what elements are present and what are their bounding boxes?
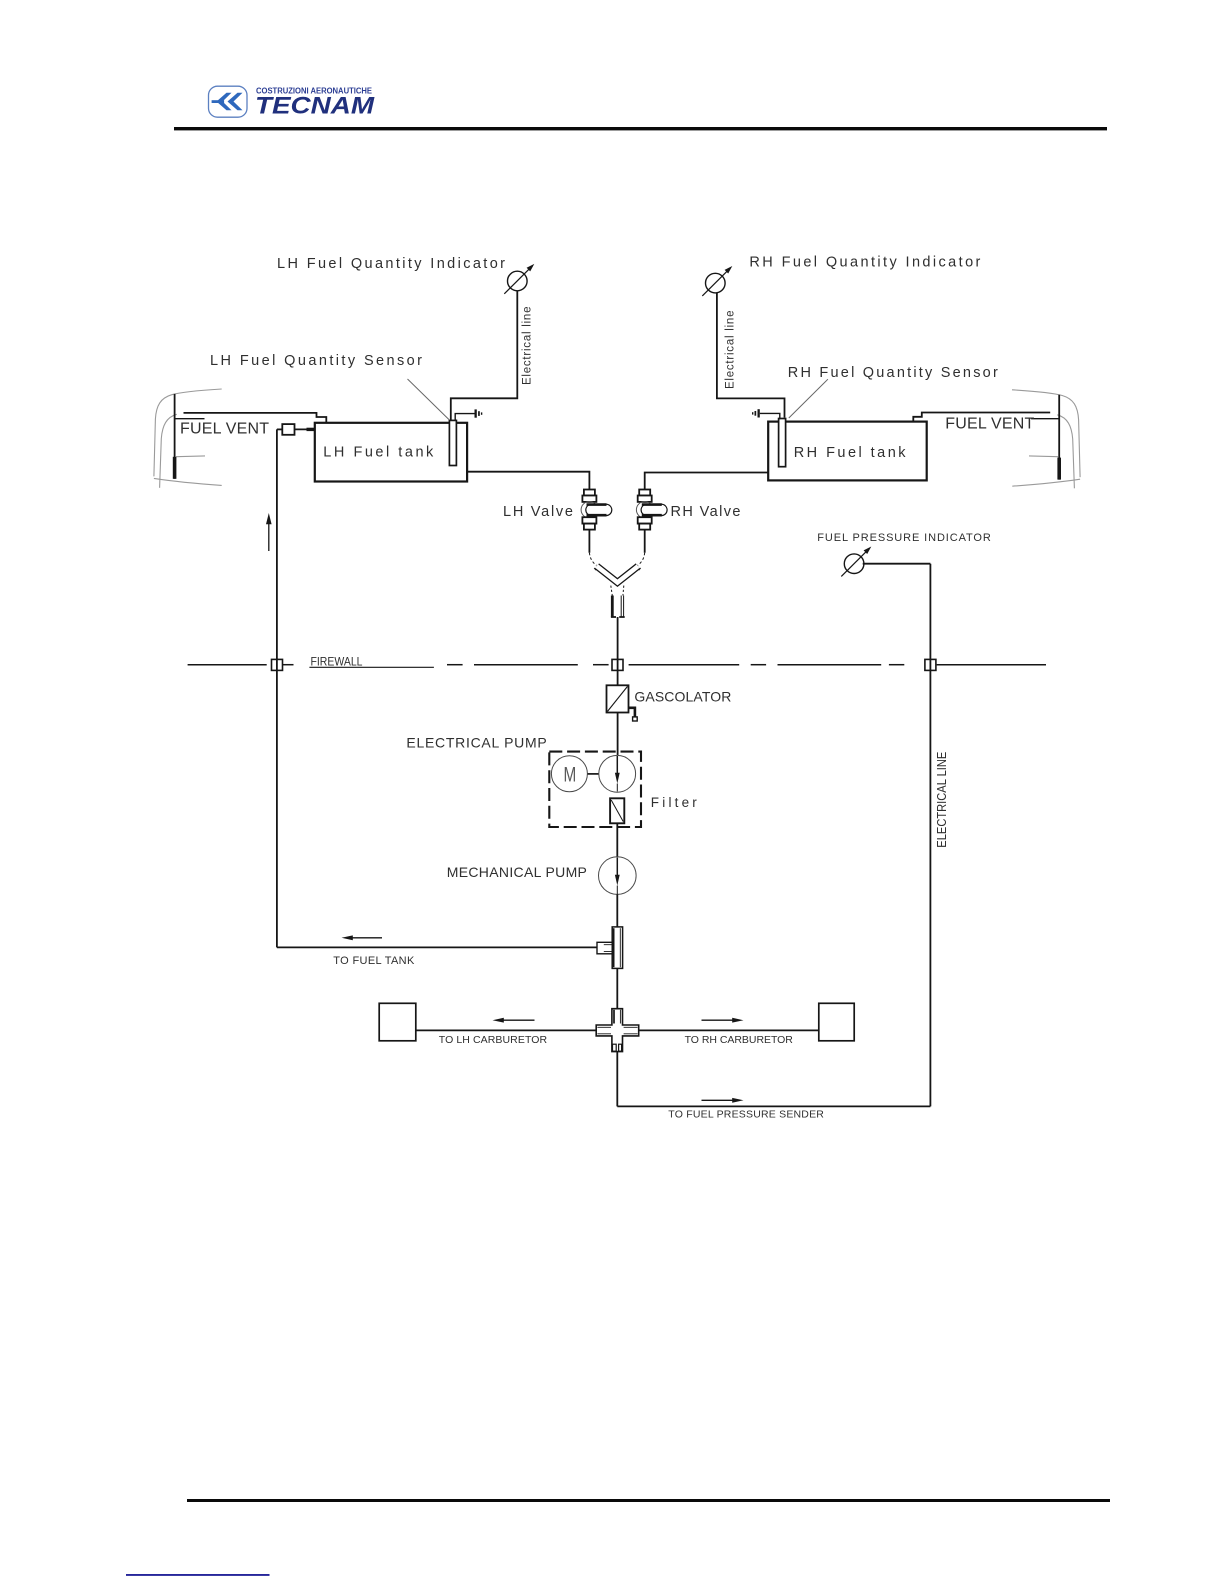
mechanical pump circle <box>599 857 637 895</box>
svg-text:TO FUEL TANK: TO FUEL TANK <box>333 955 415 967</box>
RH bonding symbol <box>760 413 780 419</box>
electrical pump arrow <box>616 756 618 774</box>
right wing tip outline <box>1012 390 1080 489</box>
RH fuel vent line <box>913 413 1050 422</box>
LH vent check valve square <box>282 424 294 435</box>
svg-text:LH Fuel tank: LH Fuel tank <box>323 444 434 460</box>
filter <box>610 798 624 823</box>
fuel pressure indicator gauge <box>844 554 864 574</box>
footer rule <box>187 1499 1110 1502</box>
electrical pump dashed box <box>549 752 641 827</box>
RH carburetor box <box>819 1003 854 1041</box>
LH vent short line <box>175 418 205 420</box>
wire gascolator to electrical pump <box>617 713 619 756</box>
fuel pressure sender line <box>617 1105 930 1107</box>
LH output wire to valve <box>467 472 589 490</box>
firewall pass-through square right <box>925 659 936 670</box>
wire T to cross <box>616 968 618 1008</box>
firewall text underline <box>309 666 434 668</box>
svg-text:Electrical line: Electrical line <box>725 311 737 390</box>
svg-text:TECNAM: TECNAM <box>255 93 375 120</box>
cross fitting <box>596 1009 639 1052</box>
svg-text:RH Valve: RH Valve <box>671 504 741 520</box>
svg-text:RH Fuel Quantity Sensor: RH Fuel Quantity Sensor <box>788 365 998 381</box>
LH bonding symbol <box>455 414 474 421</box>
svg-text:ELECTRICAL PUMP: ELECTRICAL PUMP <box>406 735 546 751</box>
svg-text:MECHANICAL PUMP: MECHANICAL PUMP <box>447 864 587 880</box>
electrical line vertical wire right <box>929 564 931 1107</box>
wire RH valve to Y <box>644 530 646 553</box>
electrical pump circle <box>599 755 636 792</box>
svg-text:Filter: Filter <box>651 795 698 810</box>
LH fuel quantity sensor tube <box>449 420 456 465</box>
RH output wire to valve <box>645 473 769 490</box>
RH sensor leader line <box>789 379 828 418</box>
svg-text:FUEL VENT: FUEL VENT <box>180 420 269 437</box>
firewall pass-through square left <box>272 659 283 670</box>
footer blue link line <box>126 1574 270 1576</box>
wire through center square <box>617 659 619 686</box>
LH sensor leader line <box>408 379 450 420</box>
svg-text:Electrical line: Electrical line <box>522 307 534 386</box>
LH valve <box>581 490 612 530</box>
motor link line <box>588 773 599 775</box>
Tecnam logo chevron arrow <box>212 93 243 110</box>
svg-text:TO RH CARBURETOR: TO RH CARBURETOR <box>685 1034 794 1046</box>
left wing tip outline <box>154 389 222 488</box>
Y connector <box>589 553 644 617</box>
wire gauge to RH sensor <box>717 293 785 418</box>
svg-text:RH Fuel tank: RH Fuel tank <box>794 445 907 461</box>
wire mechanical pump to T fitting <box>616 894 618 927</box>
Tecnam logo rounded box <box>209 86 248 117</box>
LH carburetor box <box>379 1003 416 1041</box>
wire cross down to sender line <box>616 1052 618 1107</box>
flow arrow up <box>268 522 270 551</box>
gascolator <box>607 685 629 712</box>
firewall dash-dot line <box>188 664 1046 666</box>
RH valve <box>636 490 667 530</box>
wire through left square <box>276 659 278 672</box>
RH vent short line <box>1031 418 1059 420</box>
right wing spar line <box>1058 395 1060 480</box>
T fitting <box>597 927 623 969</box>
LH fuel vent line <box>184 413 327 423</box>
LH fuel quantity indicator gauge <box>508 271 528 291</box>
RH fuel tank <box>768 422 927 481</box>
wire check valve to tank <box>295 428 315 430</box>
RH carb flow arrow <box>702 1019 736 1021</box>
mechanical pump arrow <box>616 858 618 877</box>
wire gauge to electrical line <box>863 563 931 565</box>
svg-text:ELECTRICAL LINE: ELECTRICAL LINE <box>935 752 949 848</box>
svg-text:M: M <box>564 762 577 786</box>
svg-text:FUEL PRESSURE INDICATOR: FUEL PRESSURE INDICATOR <box>817 532 991 544</box>
wire filter to mechanical pump <box>616 823 618 857</box>
return line wire to tank <box>277 946 597 948</box>
svg-text:FUEL VENT: FUEL VENT <box>945 416 1034 433</box>
firewall pass-through square center <box>612 659 623 670</box>
wire vertical to check valve <box>277 428 282 430</box>
RH fuel quantity indicator gauge <box>706 273 726 293</box>
wire through right square <box>929 659 931 672</box>
LH fuel tank <box>315 423 467 482</box>
svg-text:LH Fuel Quantity Indicator: LH Fuel Quantity Indicator <box>277 256 505 272</box>
wire LH valve to Y <box>588 530 590 553</box>
wire Y to firewall <box>617 617 619 660</box>
sender flow arrow <box>702 1099 736 1101</box>
svg-text:GASCOLATOR: GASCOLATOR <box>634 689 731 705</box>
return flow arrow <box>350 937 382 939</box>
wire cross to RH carburetor <box>639 1029 819 1031</box>
left wing spar line <box>174 394 176 479</box>
wire cross to LH carburetor <box>416 1029 596 1031</box>
wire gauge to sensor <box>451 291 518 420</box>
electrical pump motor circle <box>551 756 587 792</box>
svg-text:RH Fuel Quantity Indicator: RH Fuel Quantity Indicator <box>749 255 980 271</box>
svg-text:TO FUEL PRESSURE SENDER: TO FUEL PRESSURE SENDER <box>668 1108 824 1120</box>
svg-text:FIREWALL: FIREWALL <box>311 657 364 669</box>
return line vertical wire <box>276 429 278 947</box>
svg-text:LH Fuel Quantity Sensor: LH Fuel Quantity Sensor <box>210 353 422 369</box>
svg-text:TO LH CARBURETOR: TO LH CARBURETOR <box>439 1034 548 1046</box>
tank inlet nub <box>307 428 315 431</box>
header rule <box>174 127 1107 130</box>
gascolator drain <box>629 708 635 717</box>
svg-text:LH Valve: LH Valve <box>503 504 573 520</box>
RH fuel quantity sensor tube <box>779 419 786 467</box>
LH carb flow arrow <box>501 1019 535 1021</box>
